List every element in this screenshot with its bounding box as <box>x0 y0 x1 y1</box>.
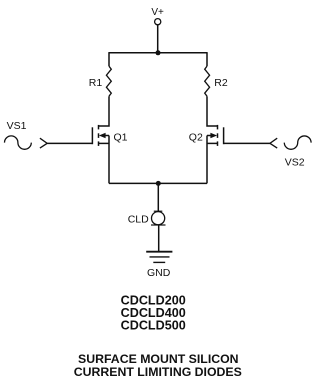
wire Q2 gate lead <box>224 142 270 144</box>
svg-text:CURRENT LIMITING DIODES: CURRENT LIMITING DIODES <box>74 365 242 379</box>
resistor R2 <box>205 66 210 96</box>
transistor Q2 <box>207 125 224 146</box>
connector chevron right <box>270 138 277 148</box>
resistor R1 <box>106 66 111 96</box>
source VS1 sine <box>5 136 32 149</box>
svg-text:Q1: Q1 <box>114 132 128 144</box>
svg-text:R1: R1 <box>89 77 103 89</box>
wire CLD to ground <box>158 225 160 251</box>
node bottom junction <box>156 181 161 186</box>
wire left drop <box>108 52 110 66</box>
wire Q2 source down <box>206 136 208 184</box>
wire right drop <box>206 52 208 66</box>
terminal CLD <box>151 211 166 225</box>
source VS2 sine <box>284 136 311 149</box>
transistor Q1 <box>92 125 109 146</box>
svg-text:V+: V+ <box>151 7 164 18</box>
svg-text:SURFACE MOUNT SILICON: SURFACE MOUNT SILICON <box>78 352 239 366</box>
svg-text:VS1: VS1 <box>7 120 27 132</box>
wire R2 to Q2 drain <box>207 96 217 126</box>
wire Q1 source down <box>108 136 110 184</box>
wire V+ stub <box>157 25 159 53</box>
svg-text:R2: R2 <box>214 77 228 89</box>
svg-text:VS2: VS2 <box>285 157 305 169</box>
ground <box>146 252 172 263</box>
svg-text:CLD: CLD <box>128 213 149 225</box>
svg-text:GND: GND <box>147 267 171 279</box>
wire R1 to Q1 drain <box>99 96 109 126</box>
wire bottom rail <box>109 182 207 184</box>
wire Q1 gate lead <box>47 142 92 144</box>
node top junction <box>156 50 161 55</box>
svg-text:CDCLD500: CDCLD500 <box>121 319 186 333</box>
wire junction to CLD <box>157 183 159 211</box>
svg-text:Q2: Q2 <box>189 132 203 144</box>
terminal V+ <box>155 19 161 25</box>
wire top rail <box>109 52 207 54</box>
connector chevron left <box>40 138 47 148</box>
